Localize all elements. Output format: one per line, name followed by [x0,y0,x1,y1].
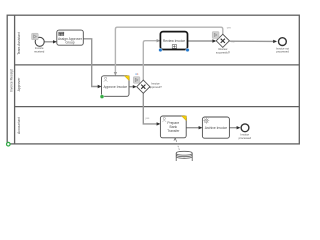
svg-text:successful?: successful? [216,50,231,54]
svg-text:Invoice Receipt: Invoice Receipt [9,69,13,92]
svg-text:Review Invoice: Review Invoice [163,39,185,43]
svg-text:Accountant: Accountant [17,117,21,134]
svg-text:processed: processed [239,136,252,140]
svg-text:yes: yes [145,117,150,120]
svg-text:yes: yes [227,27,232,30]
svg-text:processed: processed [276,50,289,54]
svg-text:approved?: approved? [149,85,162,89]
svg-text:Group: Group [65,41,74,45]
svg-text:Approve Invoice: Approve Invoice [103,85,127,89]
svg-text:received: received [34,49,45,53]
svg-text:Team Assistant: Team Assistant [17,32,21,55]
svg-text:Invoice: Invoice [151,81,160,85]
svg-text:Transfer: Transfer [167,129,180,133]
svg-text:Archive Invoice: Archive Invoice [205,126,228,130]
svg-text:Approver: Approver [17,77,21,92]
